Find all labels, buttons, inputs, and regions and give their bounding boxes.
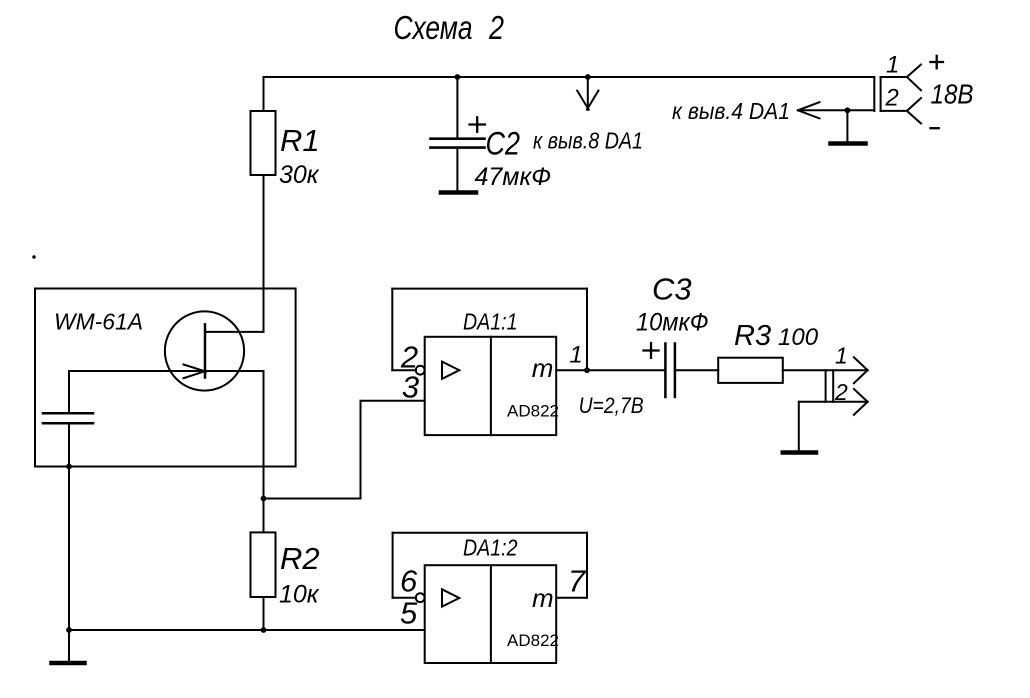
svg-text:AD822: AD822 bbox=[507, 631, 559, 650]
svg-text:R2: R2 bbox=[280, 541, 320, 576]
pin 2 of X2 bbox=[799, 401, 868, 403]
svg-text:к выв.8 DA1: к выв.8 DA1 bbox=[533, 128, 643, 154]
wire drain bbox=[205, 331, 264, 333]
svg-text:m: m bbox=[532, 353, 554, 383]
svg-text:2: 2 bbox=[488, 9, 504, 46]
wire C2 top lead bbox=[456, 77, 458, 139]
wire top supply bus bbox=[264, 76, 875, 78]
wire electret top lead bbox=[68, 371, 70, 413]
svg-text:1: 1 bbox=[569, 342, 582, 369]
node output junction bbox=[584, 367, 590, 373]
wire C2 bottom lead bbox=[456, 148, 458, 191]
wire gate with arrow bbox=[69, 370, 264, 372]
node ground bus left bbox=[66, 627, 72, 633]
svg-text:DA1:1: DA1:1 bbox=[463, 309, 518, 335]
wire DA1:2 feedback bbox=[393, 597, 416, 599]
wire R2 top lead bbox=[263, 499, 265, 533]
svg-text:R1: R1 bbox=[280, 123, 320, 158]
stray dot bbox=[32, 255, 35, 258]
svg-text:1: 1 bbox=[886, 52, 899, 79]
pin 6 inverting circle bbox=[416, 593, 425, 602]
resistor R3 bbox=[718, 358, 783, 383]
wire arrow to pin 4 DA1 bbox=[799, 109, 874, 111]
svg-text:к выв.4 DA1: к выв.4 DA1 bbox=[672, 98, 790, 124]
node C2 junction bbox=[455, 74, 461, 80]
svg-text:U=2,7В: U=2,7В bbox=[579, 393, 644, 418]
svg-text:10к: 10к bbox=[279, 581, 320, 609]
wire DA1:1 output bbox=[556, 369, 665, 371]
ground C2 bbox=[441, 190, 476, 195]
node R2 top tap bbox=[261, 496, 267, 502]
node supply arrow junction bbox=[585, 74, 591, 80]
wire supply tap down arrow to pin 8 bbox=[587, 77, 589, 110]
svg-text:10мкФ: 10мкФ bbox=[636, 309, 709, 337]
wire DA1:2 output bbox=[556, 597, 587, 599]
pin 2 of X1 bbox=[907, 98, 921, 111]
capacitor C3 bbox=[665, 344, 675, 398]
capacitor electret bbox=[43, 413, 93, 423]
pin 1 of X1 bbox=[881, 76, 907, 78]
svg-text:WM-61A: WM-61A bbox=[54, 309, 143, 335]
ground bottom left bbox=[68, 630, 70, 662]
resistor R2 bbox=[251, 532, 276, 597]
svg-text:7: 7 bbox=[568, 564, 587, 599]
svg-text:47мкФ: 47мкФ bbox=[475, 163, 552, 191]
label - supply bbox=[931, 127, 939, 129]
svg-text:5: 5 bbox=[400, 596, 418, 631]
wire ground bus bbox=[69, 629, 425, 631]
svg-text:Схема: Схема bbox=[394, 9, 473, 46]
wire R2 bottom lead bbox=[263, 597, 265, 630]
pin 1 of X2 bbox=[854, 357, 868, 370]
node box bottom junction bbox=[66, 464, 72, 470]
wire DA1:1 feedback bbox=[392, 369, 416, 371]
wire R1 top lead bbox=[263, 77, 265, 111]
svg-text:3: 3 bbox=[402, 369, 419, 404]
wire R1 bottom lead to drain bbox=[263, 175, 265, 332]
title Схема 2 bbox=[394, 9, 505, 46]
svg-text:R3: R3 bbox=[734, 320, 771, 352]
svg-text:DA1:2: DA1:2 bbox=[463, 535, 518, 561]
svg-text:100: 100 bbox=[778, 324, 819, 351]
svg-text:m: m bbox=[532, 583, 554, 613]
svg-text:C2: C2 bbox=[486, 126, 521, 162]
pin 2 inverting circle bbox=[416, 366, 425, 375]
node ground junction bbox=[845, 107, 851, 113]
wire electret bottom lead bbox=[68, 423, 70, 630]
svg-text:AD822: AD822 bbox=[507, 402, 559, 421]
wire X2 pin2 to ground bbox=[798, 402, 800, 451]
op-amp DA1:1 box bbox=[425, 337, 557, 435]
svg-text:30к: 30к bbox=[279, 161, 320, 189]
transistor VT JFET circle bbox=[165, 311, 244, 390]
wire source down bbox=[263, 371, 265, 499]
capacitor C2 bbox=[431, 139, 485, 148]
label + supply bbox=[931, 56, 944, 69]
ground X2 bbox=[783, 450, 816, 455]
connector X1 bars bbox=[873, 77, 875, 111]
wire R3 right lead bbox=[783, 369, 868, 371]
resistor R1 bbox=[251, 111, 276, 175]
svg-text:6: 6 bbox=[400, 564, 418, 599]
svg-text:18В: 18В bbox=[931, 79, 974, 110]
svg-text:2: 2 bbox=[885, 85, 899, 112]
transistor channel bar bbox=[204, 324, 207, 377]
wire C3 right lead bbox=[675, 369, 718, 371]
wire pin3 link bbox=[264, 498, 361, 500]
ground top right bbox=[846, 110, 848, 141]
microphone WM-61A box bbox=[35, 289, 296, 467]
svg-text:2: 2 bbox=[834, 379, 848, 405]
svg-text:1: 1 bbox=[835, 343, 848, 369]
connector X2 bars bbox=[825, 370, 827, 402]
svg-text:C3: C3 bbox=[652, 271, 692, 306]
node R2 bottom junction bbox=[261, 627, 267, 633]
op-amp DA1:2 box bbox=[425, 565, 557, 663]
